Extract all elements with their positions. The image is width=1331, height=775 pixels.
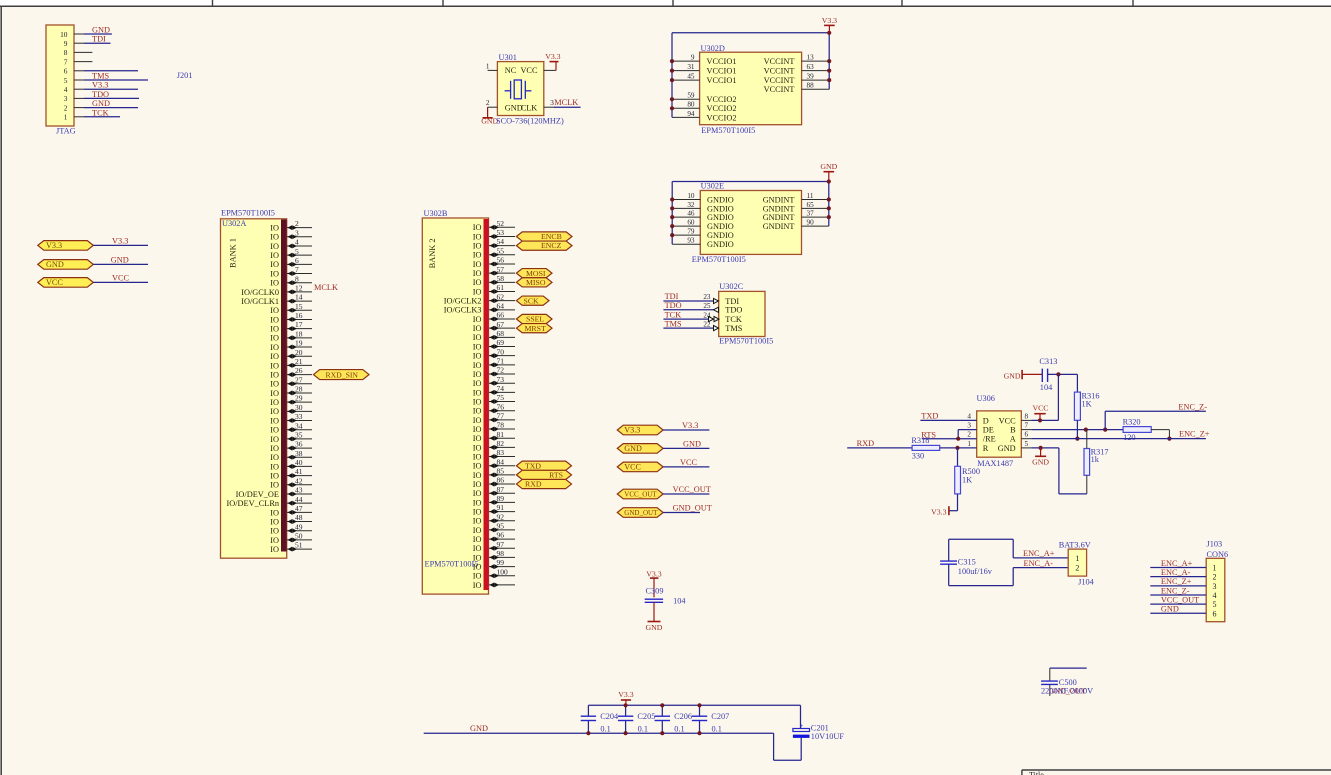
svg-text:IO: IO [270,380,279,389]
svg-text:51: 51 [295,541,303,550]
svg-text:IO: IO [270,251,279,260]
svg-text:C315: C315 [958,558,976,567]
svg-text:5: 5 [64,76,68,85]
svg-text:V3.3: V3.3 [46,241,62,250]
svg-text:IO: IO [473,581,482,590]
svg-text:3: 3 [64,94,68,103]
svg-text:IO: IO [270,435,279,444]
svg-text:VCC: VCC [680,458,698,467]
svg-text:EPM570T100I5: EPM570T100I5 [692,255,746,264]
svg-text:3: 3 [295,228,299,237]
svg-text:IO: IO [473,572,482,581]
svg-text:9: 9 [691,54,695,62]
svg-text:26: 26 [295,366,303,375]
svg-text:IO: IO [473,535,482,544]
svg-text:IO: IO [270,306,279,315]
svg-text:36: 36 [295,440,303,449]
svg-text:IO: IO [473,425,482,434]
svg-text:120: 120 [1123,433,1135,442]
svg-text:V3.3: V3.3 [92,81,108,90]
svg-text:SSEL: SSEL [526,315,544,324]
svg-text:IO: IO [270,407,279,416]
svg-text:20: 20 [295,348,303,357]
svg-text:V3.3: V3.3 [545,52,560,61]
svg-text:VCCIO1: VCCIO1 [707,76,737,85]
svg-text:97: 97 [497,540,505,549]
svg-text:TDO: TDO [665,301,682,310]
svg-text:RXD: RXD [525,480,542,489]
svg-text:SCK: SCK [524,296,540,305]
svg-text:J103: J103 [1207,540,1223,549]
svg-text:0.1: 0.1 [712,725,722,734]
svg-text:1: 1 [486,62,490,70]
svg-text:ENC_A-: ENC_A- [1161,568,1191,577]
svg-text:ENC_A+: ENC_A+ [1023,549,1055,558]
svg-text:0.1: 0.1 [674,725,684,734]
svg-text:49: 49 [295,522,303,531]
svg-text:GND: GND [646,623,663,632]
svg-text:VCC_OUT: VCC_OUT [673,485,711,494]
svg-text:IO: IO [270,269,279,278]
svg-text:61: 61 [497,283,505,292]
svg-text:C313: C313 [1039,357,1057,366]
svg-text:VCC_OUT: VCC_OUT [624,491,657,499]
svg-text:VCC: VCC [520,66,538,75]
svg-text:V3.3: V3.3 [822,16,837,25]
svg-text:IO: IO [473,269,482,278]
svg-text:100uf/16v: 100uf/16v [958,567,993,576]
svg-text:IO/DEV_OE: IO/DEV_OE [236,490,279,499]
svg-text:5: 5 [295,247,299,256]
svg-text:47: 47 [295,504,303,513]
svg-text:U302D: U302D [701,44,725,53]
svg-text:23: 23 [703,293,711,301]
svg-text:ENC_Z+: ENC_Z+ [1161,577,1192,586]
svg-text:ENCZ: ENCZ [541,241,562,250]
svg-text:VCCIO1: VCCIO1 [707,67,737,76]
svg-text:V3.3: V3.3 [682,421,698,430]
svg-text:ENC_A-: ENC_A- [1024,559,1054,568]
svg-text:IO: IO [473,352,482,361]
svg-text:GNDIO: GNDIO [707,222,734,231]
svg-text:14: 14 [295,293,303,302]
svg-text:IO: IO [473,434,482,443]
svg-text:11: 11 [807,192,814,200]
svg-text:41: 41 [295,467,303,476]
svg-text:2200NF/2000V: 2200NF/2000V [1041,687,1093,696]
svg-text:98: 98 [497,549,505,558]
svg-text:88: 88 [807,82,815,90]
svg-text:RTS: RTS [549,470,563,479]
svg-text:Title: Title [1029,771,1044,775]
svg-text:6: 6 [64,67,68,76]
svg-text:VCC: VCC [624,463,641,472]
svg-text:ENC_Z-: ENC_Z- [1178,402,1207,411]
svg-text:J104: J104 [1078,578,1095,587]
svg-text:42: 42 [295,476,303,485]
svg-text:GND: GND [470,724,488,733]
svg-text:IO: IO [473,407,482,416]
svg-text:ENC_Z+: ENC_Z+ [1179,430,1210,439]
svg-text:32: 32 [687,201,695,209]
svg-text:GND: GND [111,255,129,264]
svg-text:IO/GCLK1: IO/GCLK1 [241,297,279,306]
svg-text:BANK 2: BANK 2 [428,238,437,268]
svg-text:GND: GND [624,444,642,453]
svg-text:BAT3.6V: BAT3.6V [1059,540,1091,549]
svg-text:39: 39 [807,73,815,81]
svg-text:2: 2 [1075,564,1079,573]
svg-text:VCC_OUT: VCC_OUT [1161,596,1199,605]
svg-text:GNDINT: GNDINT [763,195,795,204]
svg-text:TDI: TDI [665,292,679,301]
svg-text:IO: IO [473,452,482,461]
svg-text:93: 93 [687,237,695,245]
svg-text:74: 74 [497,384,505,393]
svg-text:DE: DE [983,426,994,435]
svg-text:IO: IO [473,544,482,553]
svg-text:2: 2 [295,219,299,228]
svg-text:73: 73 [497,375,505,384]
svg-text:IO: IO [270,536,279,545]
svg-text:C204: C204 [600,712,619,721]
svg-text:GNDINT: GNDINT [763,213,795,222]
svg-text:85: 85 [497,466,505,475]
svg-text:TMS: TMS [92,72,109,81]
svg-text:MCLK: MCLK [554,98,578,107]
svg-text:VCCIO1: VCCIO1 [707,57,737,66]
svg-text:GNDIO: GNDIO [707,195,734,204]
svg-text:50: 50 [295,532,303,541]
svg-text:38: 38 [295,449,303,458]
svg-text:U302E: U302E [701,182,725,191]
svg-text:MCLK: MCLK [314,283,338,292]
svg-text:43: 43 [295,486,303,495]
svg-text:V3.3: V3.3 [624,426,640,435]
svg-text:NC: NC [505,66,517,75]
svg-text:C207: C207 [711,712,729,721]
svg-text:IO: IO [270,224,279,233]
svg-text:IO: IO [270,279,279,288]
svg-text:EPM570T100I5: EPM570T100I5 [701,126,755,135]
svg-text:VCC: VCC [1032,404,1048,413]
svg-text:5: 5 [1213,600,1217,609]
svg-text:100: 100 [497,567,509,576]
svg-text:82: 82 [497,439,505,448]
svg-text:/RE: /RE [983,435,996,444]
svg-text:TXD: TXD [525,461,541,470]
svg-text:IO: IO [270,462,279,471]
svg-text:BANK 1: BANK 1 [229,238,238,268]
svg-text:330: 330 [912,452,924,461]
svg-text:TCK: TCK [92,108,109,117]
svg-text:VCCINT: VCCINT [764,76,795,85]
svg-text:IO: IO [270,233,279,242]
svg-text:IO: IO [473,526,482,535]
svg-text:34: 34 [295,421,303,430]
svg-text:IO: IO [473,242,482,251]
svg-text:65: 65 [807,201,815,209]
svg-text:8: 8 [295,274,299,283]
svg-text:IO: IO [270,426,279,435]
svg-text:IO: IO [270,315,279,324]
svg-text:IO/GCLK0: IO/GCLK0 [241,288,279,297]
svg-text:TMS: TMS [725,324,742,333]
svg-text:28: 28 [295,385,303,394]
svg-text:GND: GND [1161,605,1179,614]
svg-text:7: 7 [295,265,299,274]
svg-text:IO: IO [473,232,482,241]
svg-text:TXD: TXD [921,411,938,420]
svg-text:52: 52 [497,219,505,228]
svg-text:48: 48 [295,513,303,522]
svg-text:VCC: VCC [46,278,63,287]
svg-text:IO: IO [473,388,482,397]
svg-text:7: 7 [64,57,68,66]
svg-text:D: D [983,416,989,425]
svg-text:GNDINT: GNDINT [763,222,795,231]
svg-text:10: 10 [60,30,68,39]
svg-text:IO: IO [473,471,482,480]
svg-text:GND: GND [820,162,837,171]
svg-text:45: 45 [687,73,695,81]
svg-text:54: 54 [497,237,505,246]
svg-text:IO/GCLK2: IO/GCLK2 [444,297,482,306]
svg-text:IO: IO [473,443,482,452]
svg-text:RXD: RXD [857,439,875,448]
svg-text:U302C: U302C [719,282,743,291]
svg-text:IO: IO [270,343,279,352]
svg-text:81: 81 [497,430,505,439]
svg-text:GND: GND [1004,371,1021,380]
svg-text:R: R [983,444,989,453]
svg-text:19: 19 [295,339,303,348]
svg-text:104: 104 [673,597,686,606]
svg-text:37: 37 [807,210,815,218]
svg-text:J201: J201 [177,71,193,80]
svg-text:IO: IO [270,481,279,490]
svg-text:33: 33 [295,412,303,421]
svg-text:TCK: TCK [725,315,742,324]
svg-text:SCO-736(120MHZ): SCO-736(120MHZ) [496,117,564,126]
svg-text:76: 76 [497,402,505,411]
svg-text:44: 44 [295,495,303,504]
svg-text:GND: GND [92,26,110,35]
svg-text:RXD_SIN: RXD_SIN [326,370,359,379]
svg-text:96: 96 [497,531,505,540]
svg-text:VCCINT: VCCINT [764,67,795,76]
svg-text:13: 13 [807,54,815,62]
svg-text:B: B [1010,426,1016,435]
svg-text:67: 67 [497,320,505,329]
svg-text:ENC_A+: ENC_A+ [1161,559,1193,568]
svg-text:IO: IO [473,333,482,342]
svg-text:R318: R318 [911,436,929,445]
svg-text:2: 2 [967,431,971,439]
svg-text:TMS: TMS [665,319,682,328]
svg-text:17: 17 [295,320,303,329]
svg-text:16: 16 [295,311,303,320]
svg-text:IO: IO [270,416,279,425]
svg-text:69: 69 [497,338,505,347]
svg-text:1: 1 [967,440,971,448]
svg-text:MOSI: MOSI [526,269,546,278]
svg-text:IO: IO [270,334,279,343]
svg-text:IO: IO [270,472,279,481]
svg-text:71: 71 [497,356,505,365]
svg-text:GND: GND [998,444,1016,453]
svg-text:IO: IO [473,498,482,507]
svg-text:IO: IO [270,508,279,517]
svg-text:4: 4 [1213,591,1217,600]
svg-text:C206: C206 [674,712,692,721]
svg-text:VCCIO2: VCCIO2 [707,104,737,113]
svg-text:C205: C205 [637,712,655,721]
svg-text:MRST: MRST [525,324,546,333]
svg-text:MISO: MISO [526,278,546,287]
svg-text:IO: IO [473,507,482,516]
svg-text:12: 12 [295,284,303,293]
svg-text:75: 75 [497,393,505,402]
svg-text:ENCB: ENCB [541,232,562,241]
svg-text:IO: IO [473,223,482,232]
svg-text:IO: IO [270,389,279,398]
svg-text:4: 4 [64,85,68,94]
svg-text:70: 70 [497,347,505,356]
svg-text:56: 56 [497,256,505,265]
svg-text:91: 91 [497,503,505,512]
svg-text:90: 90 [807,219,815,227]
svg-text:18: 18 [295,329,303,338]
svg-text:21: 21 [295,357,303,366]
svg-text:IO: IO [473,287,482,296]
svg-text:46: 46 [687,210,695,218]
svg-text:1: 1 [1075,554,1079,563]
svg-text:80: 80 [687,101,695,109]
svg-text:EPM570T100I5: EPM570T100I5 [719,336,773,345]
svg-text:IO: IO [270,352,279,361]
svg-text:IO: IO [270,260,279,269]
svg-text:64: 64 [497,301,505,310]
svg-text:2: 2 [1213,573,1217,582]
svg-text:15: 15 [295,302,303,311]
svg-text:MAX1487: MAX1487 [977,459,1013,468]
svg-text:C309: C309 [646,587,664,596]
svg-text:55: 55 [497,246,505,255]
svg-text:GND_OUT: GND_OUT [624,509,658,517]
svg-text:104: 104 [1040,383,1053,392]
svg-text:4: 4 [295,238,299,247]
svg-text:U301: U301 [499,53,517,62]
svg-text:94: 94 [687,110,695,118]
svg-text:GNDIO: GNDIO [707,240,734,249]
svg-text:TCK: TCK [665,310,682,319]
svg-text:IO: IO [473,315,482,324]
svg-text:IO: IO [473,379,482,388]
svg-text:CON6: CON6 [1207,550,1229,559]
svg-text:IO: IO [270,527,279,536]
svg-text:2: 2 [486,99,490,107]
svg-text:66: 66 [497,311,505,320]
svg-text:30: 30 [295,403,303,412]
svg-text:40: 40 [295,458,303,467]
svg-text:GND_OUT: GND_OUT [673,503,712,512]
svg-text:IO: IO [473,416,482,425]
svg-text:IO: IO [270,545,279,554]
svg-text:TDI: TDI [92,35,106,44]
svg-text:6: 6 [295,256,299,265]
svg-text:8: 8 [64,48,68,57]
svg-text:VCCIO2: VCCIO2 [707,95,737,104]
svg-text:83: 83 [497,448,505,457]
svg-text:63: 63 [807,63,815,71]
svg-text:TDO: TDO [725,306,742,315]
svg-text:1: 1 [1213,564,1217,573]
svg-text:U306: U306 [977,394,995,403]
svg-text:IO: IO [473,361,482,370]
svg-text:JTAG: JTAG [56,127,76,136]
svg-text:35: 35 [295,430,303,439]
svg-text:57: 57 [497,265,505,274]
svg-text:84: 84 [497,457,505,466]
svg-text:58: 58 [497,274,505,283]
svg-text:V3.3: V3.3 [646,570,661,579]
svg-text:77: 77 [497,411,505,420]
svg-text:99: 99 [497,558,505,567]
svg-text:GND: GND [46,260,64,269]
svg-text:GNDIO: GNDIO [707,213,734,222]
svg-text:IO: IO [473,553,482,562]
svg-text:1K: 1K [962,476,972,485]
svg-text:86: 86 [497,476,505,485]
svg-text:79: 79 [687,228,695,236]
svg-text:GNDIO: GNDIO [707,231,734,240]
svg-text:IO: IO [473,462,482,471]
svg-text:78: 78 [497,421,505,430]
svg-text:GND: GND [1032,458,1049,467]
svg-text:1k: 1k [1091,455,1100,464]
svg-text:9: 9 [64,39,68,48]
svg-text:25: 25 [703,302,711,310]
svg-text:89: 89 [497,494,505,503]
svg-text:U302B: U302B [424,209,448,218]
svg-text:60: 60 [687,219,695,227]
svg-text:IO: IO [473,562,482,571]
svg-text:5: 5 [1025,440,1029,448]
svg-text:6: 6 [1025,431,1029,439]
svg-text:+: + [800,722,804,730]
svg-text:CLK: CLK [521,104,538,113]
svg-text:V3.3: V3.3 [931,508,946,517]
svg-text:31: 31 [687,63,695,71]
svg-text:VCCIO2: VCCIO2 [707,113,737,122]
svg-text:53: 53 [497,228,505,237]
svg-text:VCC: VCC [999,416,1017,425]
svg-text:IO: IO [473,251,482,260]
svg-text:3: 3 [967,422,971,430]
svg-text:72: 72 [497,366,505,375]
svg-text:IO: IO [473,324,482,333]
svg-text:10V10UF: 10V10UF [811,732,845,741]
svg-text:IO: IO [473,278,482,287]
svg-text:6: 6 [1213,609,1217,618]
svg-text:VCCINT: VCCINT [764,57,795,66]
svg-text:92: 92 [497,512,505,521]
svg-text:7: 7 [1025,422,1029,430]
svg-text:68: 68 [497,329,505,338]
svg-text:EPM570T100I5: EPM570T100I5 [221,208,275,217]
svg-text:8: 8 [1025,412,1029,420]
